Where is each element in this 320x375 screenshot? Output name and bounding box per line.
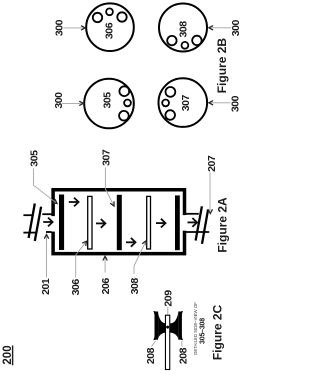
- svg-text:207: 207: [206, 155, 218, 172]
- svg-text:306: 306: [103, 22, 115, 39]
- hole right of disc 306: [117, 12, 126, 21]
- flow arrow after bar 307: [126, 238, 136, 247]
- leader arrow 300 to disc 306: [64, 26, 86, 30]
- hole top of disc 307: [166, 87, 176, 97]
- svg-text:306: 306: [70, 279, 82, 296]
- hole middle of disc 305: [124, 100, 131, 107]
- svg-text:305–308: 305–308: [200, 318, 207, 344]
- electrode bar 307 (black): [117, 195, 122, 250]
- svg-text:Figure 2B: Figure 2B: [215, 38, 229, 94]
- disc 307 outline: [159, 78, 208, 127]
- rod through electrode: [165, 315, 169, 369]
- label 305 with leader: [28, 150, 57, 204]
- svg-text:209: 209: [162, 290, 174, 307]
- disc 305 outline: [84, 79, 134, 129]
- disc 306 outline: [86, 3, 134, 51]
- electrode bar 305 (black): [59, 195, 64, 251]
- label 209 with leader: [162, 290, 174, 315]
- electrode bar last (black): [175, 195, 180, 250]
- hole bottom of disc 305: [119, 111, 129, 121]
- svg-text:300: 300: [229, 95, 240, 112]
- svg-text:206: 206: [100, 278, 112, 295]
- outlet pipe 207: [184, 214, 209, 232]
- svg-text:300: 300: [53, 92, 65, 109]
- leader arrow 300 to disc 308: [209, 26, 231, 30]
- label 307 with leader: [101, 149, 115, 206]
- electrode bar 308 (white): [147, 196, 151, 249]
- electrode hub (black web between discs): [158, 313, 178, 339]
- flow arrow after bar 305: [69, 198, 79, 207]
- chamber housing 206: [51, 190, 187, 254]
- flow arrow after bar 308: [156, 219, 166, 228]
- outlet pipe break symbol: [196, 206, 209, 244]
- svg-text:300: 300: [53, 19, 65, 36]
- electrode bar 306 (white): [88, 196, 92, 249]
- flow arrow after bar 306: [96, 219, 105, 228]
- svg-text:307: 307: [101, 149, 113, 166]
- inlet pipe 201: [23, 214, 51, 232]
- svg-text:300: 300: [230, 20, 240, 37]
- flow arrow at outlet: [188, 218, 198, 227]
- hole bottom of disc 307: [165, 110, 175, 120]
- disc flange left: [155, 312, 159, 340]
- disc 308 outline: [159, 4, 207, 52]
- label 206 with leader: [100, 256, 112, 294]
- svg-text:Figure 2C: Figure 2C: [210, 304, 224, 360]
- hole middle of disc 307: [162, 100, 169, 107]
- svg-text:DETAILED SIDE–VIEW OF: DETAILED SIDE–VIEW OF: [193, 302, 198, 355]
- svg-text:307: 307: [180, 95, 192, 112]
- hole middle of disc 308: [182, 42, 189, 49]
- svg-text:208: 208: [177, 347, 189, 364]
- svg-text:201: 201: [40, 278, 52, 295]
- inlet pipe break symbol: [29, 204, 41, 242]
- hole left of disc 306: [93, 13, 102, 22]
- label 308 with leader: [129, 241, 146, 294]
- leader arrow 300 to disc 307: [209, 101, 231, 105]
- hole middle of disc 306: [106, 8, 113, 15]
- label 207 with leader: [206, 155, 218, 213]
- label 208 right with leader: [177, 341, 189, 364]
- disc flange right: [178, 312, 182, 340]
- svg-text:Figure 2A: Figure 2A: [215, 197, 229, 253]
- flow arrow at inlet: [43, 218, 52, 227]
- hole right of disc 308: [192, 36, 201, 45]
- svg-text:308: 308: [177, 21, 189, 38]
- svg-text:308: 308: [129, 278, 141, 295]
- sheet number 200 underlined: [2, 345, 14, 365]
- label 201 with leader: [40, 235, 52, 295]
- label 208 left with leader: [145, 341, 157, 364]
- label 306 with leader: [70, 241, 87, 295]
- leader arrow 300 to disc 305: [62, 101, 83, 105]
- center pin dot: [166, 326, 169, 329]
- flange tip curls: [153, 311, 183, 340]
- hole left of disc 308: [167, 36, 176, 45]
- svg-text:208: 208: [145, 347, 157, 364]
- hole top of disc 305: [119, 86, 129, 96]
- svg-text:305: 305: [28, 150, 40, 167]
- svg-text:305: 305: [101, 92, 113, 109]
